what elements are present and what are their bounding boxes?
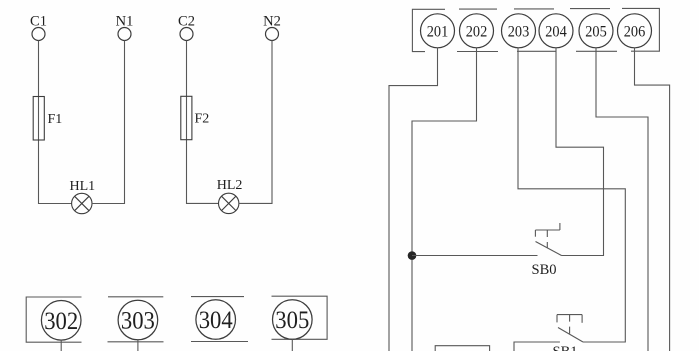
wire below 302 (60, 340, 62, 351)
terminal 303 (118, 300, 158, 340)
terminal 202 (460, 14, 494, 48)
wire 204 down to SB0 right (556, 48, 604, 256)
pushbutton SB0 (NC) (412, 223, 562, 278)
terminal 304 (196, 300, 236, 340)
component box (cut off at bottom) (435, 346, 489, 351)
svg-text:305: 305 (275, 307, 309, 334)
svg-text:206: 206 (624, 24, 646, 41)
terminal strip 302-305 box (26, 296, 327, 342)
pushbutton SB1 (NO, partially cut) (514, 315, 625, 351)
svg-text:SB1: SB1 (553, 344, 578, 351)
terminal 204 (539, 14, 573, 48)
wire C2 down through F2 to lamp row (187, 41, 219, 204)
wire below 305 (291, 339, 293, 351)
svg-text:205: 205 (585, 24, 607, 41)
svg-text:HL2: HL2 (217, 178, 243, 193)
terminal strip 201-206 box (412, 8, 659, 51)
svg-text:202: 202 (466, 24, 488, 41)
wire lamp HL1 to N1 (92, 41, 125, 204)
wire 202 to junction bus (412, 48, 477, 351)
node N2 (263, 14, 281, 41)
node N1 (116, 14, 134, 41)
wire 205 to right bus (596, 48, 648, 351)
svg-text:304: 304 (199, 307, 233, 334)
svg-text:201: 201 (427, 24, 449, 41)
svg-text:203: 203 (508, 24, 530, 41)
wire 201 to left bus (389, 48, 438, 351)
lamp HL2 (217, 178, 243, 214)
svg-text:N2: N2 (263, 14, 281, 30)
wire 203 down and right to SB1 (518, 48, 625, 342)
terminal 203 (502, 14, 536, 48)
terminal 206 (618, 14, 652, 48)
svg-text:HL1: HL1 (69, 179, 95, 194)
wire C1 down through F1 to lamp row (39, 41, 72, 204)
svg-text:204: 204 (545, 24, 567, 41)
wire 206 to outer right bus (635, 48, 670, 351)
svg-text:C2: C2 (178, 14, 195, 30)
fuse F1 (33, 97, 62, 141)
svg-text:F2: F2 (195, 112, 210, 127)
node C1 (30, 14, 47, 41)
terminal 302 (41, 301, 81, 341)
svg-text:N1: N1 (116, 14, 134, 30)
svg-text:F1: F1 (48, 112, 63, 127)
terminal 305 (273, 300, 313, 340)
svg-text:302: 302 (44, 308, 78, 335)
junction node on 202 bus (408, 251, 417, 260)
node C2 (178, 14, 195, 41)
wire lamp HL2 to N2 (239, 41, 272, 204)
terminal 205 (579, 14, 613, 48)
svg-text:SB0: SB0 (532, 262, 557, 278)
fuse F2 (181, 96, 209, 139)
lamp HL1 (69, 179, 95, 214)
svg-text:303: 303 (121, 308, 155, 335)
svg-text:C1: C1 (30, 14, 47, 30)
terminal 201 (421, 14, 455, 48)
wire below 303 (137, 340, 139, 351)
